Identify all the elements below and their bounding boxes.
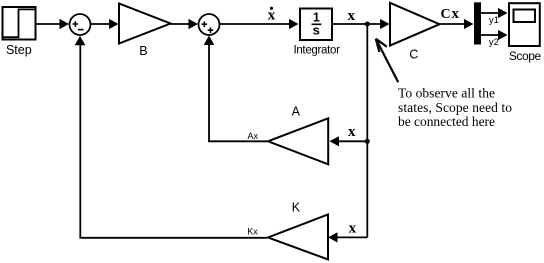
label Ax (248, 131, 259, 141)
svg-text:be connected here: be connected here (398, 114, 495, 129)
wire Sum2 to Integrator (220, 19, 299, 29)
gain A (268, 105, 328, 165)
svg-text:Integrator: Integrator (293, 45, 340, 57)
wire Sum1 to B (91, 19, 119, 29)
node junction dot after integrator (365, 22, 370, 27)
wire to K input (328, 232, 367, 242)
sum junction Sum1 (70, 14, 91, 35)
gain B (119, 4, 171, 59)
label x at K input (349, 221, 357, 237)
wire x vertical feedback (366, 24, 368, 237)
gain K (268, 200, 328, 259)
scope block (509, 3, 542, 63)
svg-text:x: x (349, 221, 357, 237)
wire C to Demux (440, 19, 474, 29)
gain C (390, 3, 440, 62)
label y1 (489, 15, 499, 26)
wire Demux to Scope y1 (481, 8, 508, 18)
svg-text:x: x (268, 8, 276, 24)
svg-text:Scope: Scope (509, 49, 542, 63)
node junction dot at A tap (365, 139, 370, 144)
wire Demux to Scope y2 (481, 30, 508, 40)
svg-text:s: s (313, 22, 320, 37)
svg-text:C: C (409, 48, 418, 62)
annotation text (398, 86, 512, 130)
svg-text:Kx: Kx (247, 227, 258, 237)
wire A output to Sum2 (204, 36, 268, 142)
block Step (3, 7, 36, 57)
label xdot (268, 7, 276, 24)
svg-text:B: B (139, 44, 147, 58)
integrator block U=1/s (293, 9, 340, 57)
sum junction Sum2 (199, 14, 220, 35)
demux (474, 2, 481, 44)
label x at A input (348, 124, 356, 140)
svg-text:C: C (440, 7, 450, 22)
svg-text:K: K (292, 200, 301, 214)
svg-text:states, Scope need to: states, Scope need to (398, 100, 512, 115)
wire to A input (330, 136, 368, 146)
wire K output to Sum1 (75, 36, 267, 238)
svg-text:Step: Step (6, 43, 32, 57)
svg-text:y2: y2 (489, 37, 499, 48)
label Kx (247, 227, 258, 237)
svg-text:y1: y1 (489, 15, 499, 26)
svg-text:x: x (348, 124, 356, 140)
wire Step to Sum1 (37, 19, 70, 29)
wire B to Sum2 (171, 19, 199, 29)
label y2 (489, 37, 499, 48)
svg-text:x: x (347, 8, 355, 24)
label x after integrator (347, 8, 355, 24)
wire Integrator to C (333, 19, 390, 29)
svg-text:x: x (452, 6, 460, 22)
annotation arrow (376, 39, 398, 83)
label Cx (440, 6, 459, 22)
svg-text:Ax: Ax (248, 131, 259, 141)
svg-text:A: A (292, 105, 301, 119)
svg-text:To observe all the: To observe all the (398, 86, 495, 101)
